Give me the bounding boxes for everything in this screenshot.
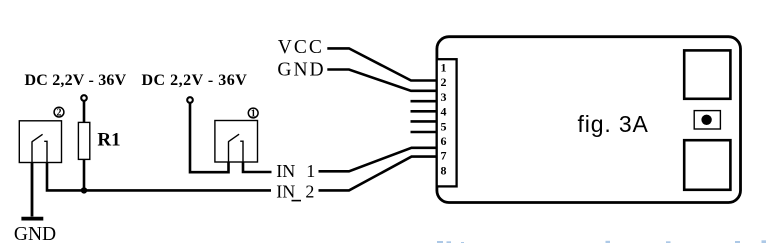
svg-text:IN: IN [276, 161, 295, 181]
svg-text:R1: R1 [97, 129, 120, 150]
svg-text:4: 4 [441, 105, 447, 119]
pin 6 stub [411, 131, 438, 134]
svg-text:GND: GND [14, 224, 56, 243]
wire S2 to IN_2 [47, 162, 271, 190]
switch S1 left contact [228, 142, 230, 162]
pin 4 stub [411, 110, 438, 113]
svg-text:2: 2 [441, 75, 447, 89]
wire T2 to S1 left pin [190, 103, 229, 172]
svg-text:DC 2,2V - 36V: DC 2,2V - 36V [142, 72, 248, 89]
square pad top-right [684, 50, 730, 98]
switch S2 left contact [31, 142, 33, 163]
cut-off text remnants bottom [437, 240, 766, 243]
resistor R1 [78, 122, 89, 159]
svg-text:3: 3 [441, 90, 447, 104]
terminal T2 [187, 97, 193, 103]
wire S2 to ground [31, 162, 34, 216]
svg-text:1: 1 [441, 61, 447, 75]
switch S2 lever [32, 134, 43, 142]
svg-text:8: 8 [441, 163, 447, 177]
wire S1 to IN 1 [243, 162, 272, 172]
wire IN2 to pin8 [319, 157, 438, 191]
pin 5 stub [411, 120, 438, 123]
switch S1 lever [228, 134, 239, 142]
svg-text:IN: IN [276, 181, 295, 201]
svg-text:DC 2,2V - 36V: DC 2,2V - 36V [25, 72, 127, 89]
svg-text:1: 1 [251, 109, 256, 120]
circled 2 [54, 107, 64, 117]
junction node [81, 187, 87, 193]
ground bar [21, 217, 43, 221]
wire VCC to pin1 [327, 48, 437, 80]
LED indicator box [694, 111, 720, 129]
svg-text:GND: GND [277, 59, 325, 80]
svg-text:7: 7 [441, 149, 447, 163]
circled 1 [248, 108, 258, 118]
switch S1 right contact [240, 141, 244, 162]
svg-text:VCC: VCC [278, 37, 324, 58]
switch S2 box [19, 121, 61, 163]
svg-text:1: 1 [306, 161, 315, 181]
svg-text:2: 2 [305, 181, 314, 201]
svg-text:5: 5 [441, 119, 447, 133]
square pad bottom-right [684, 140, 730, 190]
svg-text:6: 6 [441, 134, 447, 148]
module fig.3A outline [437, 37, 741, 203]
svg-text:fig. 3A: fig. 3A [578, 111, 649, 137]
wire T1 to R1 [83, 101, 86, 123]
wire IN1 to pin7 [319, 148, 438, 172]
LED dot [701, 115, 711, 125]
connector J1 pin header block [437, 59, 457, 186]
terminal T1 [81, 95, 87, 101]
wire GND to pin2 [327, 70, 437, 91]
svg-text:2: 2 [57, 108, 62, 119]
wire R1 to junction [83, 160, 86, 191]
pin 3 stub [411, 100, 438, 103]
switch S2 right contact [44, 141, 48, 162]
switch S1 box [215, 121, 258, 163]
